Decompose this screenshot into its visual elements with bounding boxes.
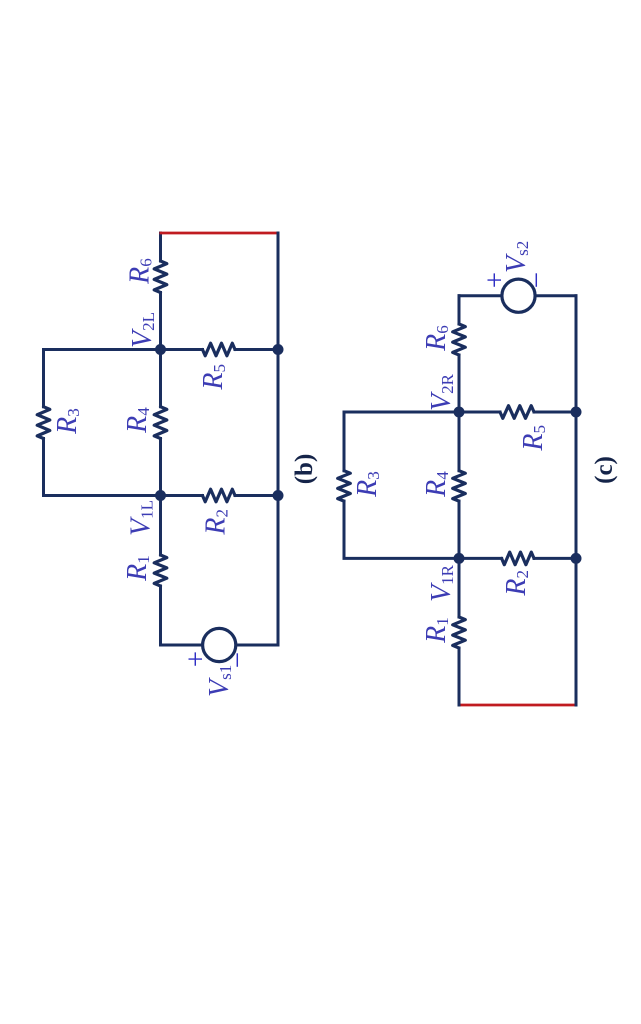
wire: R3 loop, V1L up / across / down to V2L — [44, 439, 161, 496]
wire: node V1L to R4 — [159, 439, 162, 496]
wire: circuit (b) top rail, source to R1 — [159, 586, 162, 645]
voltage source Vs1 circle — [203, 628, 236, 661]
resistor R3 (c) — [338, 471, 351, 501]
wire: R4 to node V2R — [458, 412, 461, 471]
node V1R junction dot — [454, 553, 465, 564]
wire: R2 to bottom rail — [235, 494, 278, 497]
svg-text:R5: R5 — [198, 364, 229, 391]
resistor R2 branch (c): wire node V1R down — [459, 557, 502, 560]
node V2R junction dot — [454, 407, 465, 418]
wire: right branch top, rail to source Vs2 — [459, 294, 502, 297]
wire: R5 to bottom rail — [534, 411, 576, 414]
node: R2 bottom junction dot — [273, 490, 284, 501]
svg-text:(b): (b) — [291, 454, 318, 485]
resistor R4 (b) — [154, 407, 167, 439]
wire: node V1R to R4 — [458, 501, 461, 558]
wire: R3 loop (c), V1R up / across / down to V2R — [344, 501, 459, 558]
resistor R6 (b) — [154, 261, 167, 293]
voltage source Vs2 circle — [502, 279, 535, 312]
wire: source Vs1 to bottom rail — [236, 644, 278, 647]
svg-text:R3: R3 — [352, 471, 383, 498]
svg-text:(c): (c) — [591, 456, 618, 484]
svg-text:R1: R1 — [122, 555, 153, 582]
svg-text:Vs1: Vs1 — [204, 665, 235, 697]
resistor R5 (b) — [203, 343, 236, 356]
wire: red right-side return wire (b) — [161, 232, 278, 235]
resistor R5 (c) — [500, 406, 534, 419]
wire: source Vs2 to bottom rail — [535, 294, 576, 297]
resistor R2 branch (b): wire node V1L down — [161, 494, 203, 497]
wire: R2 to bottom rail — [534, 557, 576, 560]
svg-text:V1L: V1L — [126, 500, 157, 536]
svg-text:+: + — [180, 651, 212, 667]
wire: R4 to node V2L — [159, 350, 162, 407]
wire: R1 to node V1L — [159, 496, 162, 556]
wire: red left-side return wire (c) — [460, 704, 575, 707]
svg-text:−: − — [521, 272, 553, 288]
wire: circuit (c) top rail, left corner to R1 — [458, 648, 461, 705]
svg-text:Vs2: Vs2 — [501, 241, 532, 273]
wire: R6 to top-right corner — [159, 233, 162, 261]
svg-text:R4: R4 — [421, 471, 452, 498]
resistor R1 (c) — [453, 617, 466, 648]
node: R5 bottom junction dot — [273, 344, 284, 355]
wire: node V2R to R6 — [458, 355, 461, 412]
wire: R5 to bottom rail — [235, 348, 278, 351]
node: R5 bottom junction dot (c) — [571, 407, 582, 418]
svg-text:+: + — [479, 272, 511, 288]
svg-text:V1R: V1R — [426, 564, 457, 602]
svg-text:R1: R1 — [421, 617, 452, 644]
svg-text:R6: R6 — [125, 258, 156, 285]
node V1L junction dot — [155, 490, 166, 501]
svg-text:V2R: V2R — [426, 373, 457, 411]
resistor R5 branch (b): wire node V2L down — [161, 348, 203, 351]
node: R2 bottom junction dot (c) — [571, 553, 582, 564]
wire: R6 to top-right corner — [458, 296, 461, 324]
svg-text:R5: R5 — [518, 425, 549, 452]
svg-text:R4: R4 — [122, 407, 153, 434]
svg-text:V2L: V2L — [127, 312, 158, 348]
wire: left branch top, rail to source Vs1 — [161, 644, 203, 647]
resistor R4 (c) — [453, 471, 466, 501]
svg-text:R2: R2 — [201, 509, 232, 536]
wire: circuit (b) bottom rail — [277, 233, 280, 645]
resistor R2 (b) — [203, 489, 236, 502]
resistor R6 (c) — [453, 324, 466, 355]
wire: node V2L to R6 — [159, 293, 162, 350]
svg-text:R3: R3 — [52, 408, 83, 435]
resistor R5 branch (c): wire node V2R down — [459, 411, 500, 414]
wire: circuit (c) bottom rail — [575, 296, 578, 705]
wire: R1 to node V1R — [458, 558, 461, 617]
svg-text:R2: R2 — [501, 570, 532, 597]
node V2L junction dot — [155, 344, 166, 355]
svg-text:R6: R6 — [421, 325, 452, 352]
resistor R2 (c) — [502, 552, 534, 565]
resistor R3 (b) — [37, 407, 50, 439]
resistor R1 (b) — [154, 555, 167, 586]
